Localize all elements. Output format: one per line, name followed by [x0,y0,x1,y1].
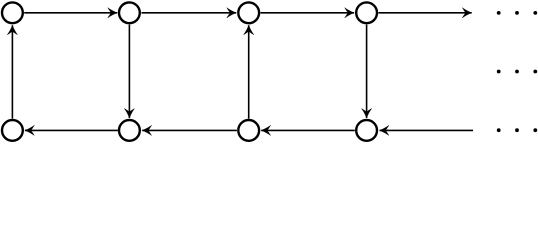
node B4 (bottom row, column 4 circle) [356,120,377,141]
wire arrow B3 to B2 (bottom, leftward) [142,129,237,131]
wire arrow B1 to A1 (column 1, upward) [11,25,13,118]
node B1 (bottom row, column 1 circle) [2,120,23,141]
wire arrow B4 to B3 (bottom, leftward) [261,129,355,131]
wire arrow B3 to A3 (column 3, upward) [248,25,250,118]
node A4 (top row, column 4 circle) [356,2,377,23]
node B2 (bottom row, column 2 circle) [119,120,140,141]
node A3 (top row, column 3 circle) [238,2,259,23]
wire arrow ellipsis to B4 (bottom, leftward) [380,129,474,131]
wire arrow A3 to A4 (top, rightward) [261,12,355,14]
wire arrow A2 to A3 (top, rightward) [142,12,237,14]
wire arrow A2 to B2 (column 2, downward) [128,25,130,118]
wire arrow A4 to ellipsis (top, rightward) [378,12,471,14]
wire arrow B2 to B1 (bottom, leftward) [25,129,118,131]
node A1 (top row, column 1 circle) [2,2,23,23]
node A2 (top row, column 2 circle) [119,2,140,23]
ellipsis dots, bottom row [497,128,537,132]
node B3 (bottom row, column 3 circle) [238,120,259,141]
ellipsis dots, top row [497,11,537,15]
ellipsis dots, middle row [497,70,537,74]
wire arrow A4 to B4 (column 4, downward) [366,25,368,118]
wire arrow A1 to A2 (top, rightward) [24,12,117,14]
